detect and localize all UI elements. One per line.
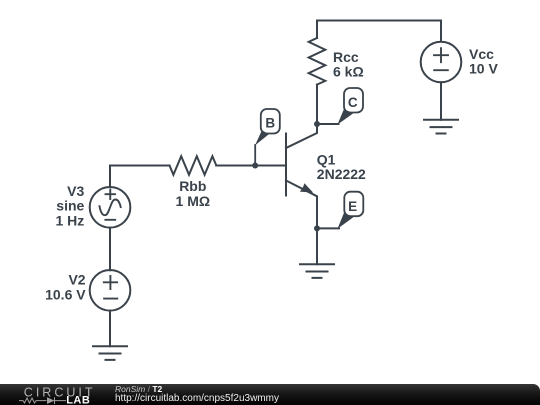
svg-text:sine: sine: [56, 198, 84, 214]
svg-text:Rbb: Rbb: [179, 178, 206, 194]
svg-text:Q1: Q1: [317, 151, 336, 167]
svg-text:10.6 V: 10.6 V: [45, 286, 86, 302]
svg-text:Vcc: Vcc: [469, 46, 494, 62]
svg-text:V3: V3: [67, 183, 84, 199]
svg-text:1 MΩ: 1 MΩ: [176, 193, 211, 209]
svg-text:V2: V2: [68, 272, 85, 288]
svg-text:2N2222: 2N2222: [317, 166, 366, 182]
svg-text:E: E: [348, 199, 357, 214]
svg-text:1 Hz: 1 Hz: [56, 212, 85, 228]
svg-text:B: B: [265, 115, 275, 130]
svg-text:10 V: 10 V: [469, 61, 498, 77]
svg-text:LAB: LAB: [66, 394, 90, 405]
svg-text:6 kΩ: 6 kΩ: [333, 64, 364, 80]
svg-text:Rcc: Rcc: [333, 49, 359, 65]
svg-text:C: C: [348, 95, 358, 110]
